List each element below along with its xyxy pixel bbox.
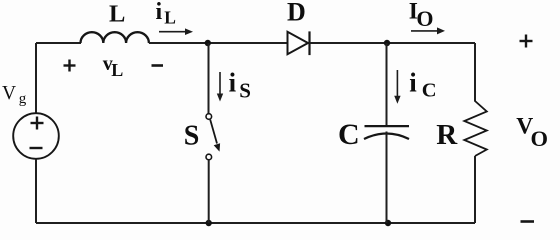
wire diode to right <box>310 42 476 44</box>
minus bottom right <box>521 220 535 223</box>
wire inductor to diode <box>149 42 288 44</box>
switch S bottom contact <box>206 154 212 160</box>
voltage source Vg <box>13 113 59 159</box>
svg-text:L: L <box>109 1 125 28</box>
switch S top contact <box>206 114 212 120</box>
arrow i_C <box>396 70 398 97</box>
arrow I_O <box>411 30 438 32</box>
svg-text:L: L <box>111 60 123 80</box>
bottom rail <box>36 222 475 224</box>
wire top-left horizontal <box>36 42 81 44</box>
wire capacitor branch top <box>386 43 388 126</box>
resistor R <box>464 101 487 156</box>
svg-text:D: D <box>287 0 306 26</box>
wire switch branch bottom <box>208 160 210 223</box>
node top switch junction <box>205 40 211 46</box>
node top capacitor junction <box>384 40 390 46</box>
minus v_L <box>152 64 164 67</box>
wire capacitor branch bottom <box>386 132 388 224</box>
svg-text:g: g <box>19 91 27 107</box>
arrow i_S <box>219 72 221 95</box>
svg-text:L: L <box>164 7 176 27</box>
capacitor C top plate <box>365 125 410 127</box>
wire right vertical top <box>474 43 476 102</box>
diode D <box>288 32 309 54</box>
svg-text:R: R <box>436 119 458 151</box>
wire left vertical bottom <box>35 159 37 223</box>
svg-text:V: V <box>2 83 16 104</box>
wire left vertical top <box>35 43 37 114</box>
svg-text:O: O <box>416 6 433 31</box>
wire right vertical bottom <box>474 156 476 223</box>
wire switch branch top <box>208 43 210 114</box>
svg-text:i: i <box>409 68 417 98</box>
switch S blade with arrow <box>210 120 217 144</box>
plus v_L <box>64 60 76 72</box>
arrow i_L <box>159 31 186 33</box>
inductor L <box>81 32 149 43</box>
svg-text:S: S <box>184 120 200 151</box>
plus top right <box>520 35 533 48</box>
svg-text:S: S <box>239 79 251 103</box>
svg-text:C: C <box>422 80 437 102</box>
svg-text:O: O <box>531 126 549 151</box>
node bottom capacitor junction <box>385 220 391 226</box>
svg-text:i: i <box>156 0 163 25</box>
svg-text:i: i <box>229 68 237 98</box>
capacitor C bottom plate (arc) <box>364 134 409 140</box>
svg-text:C: C <box>338 118 360 151</box>
node bottom switch junction <box>206 220 212 226</box>
